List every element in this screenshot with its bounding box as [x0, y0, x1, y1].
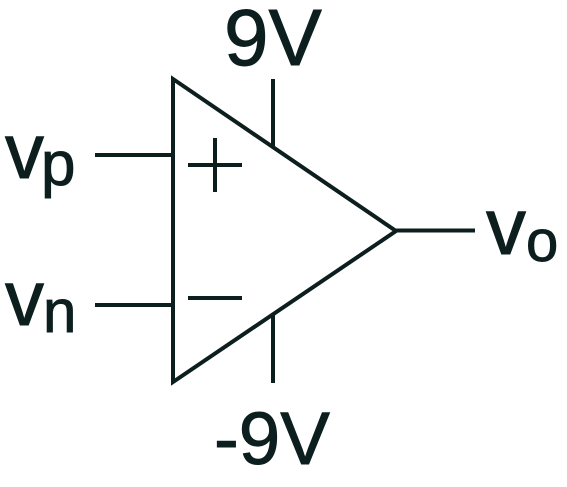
plus (non-inverting) input symbol — [188, 138, 242, 192]
minus (inverting) input symbol — [188, 296, 242, 300]
node vn label — [5, 254, 76, 345]
svg-text:n: n — [43, 278, 76, 345]
op-amp U1 triangle body — [173, 79, 396, 382]
wire +9V supply — [271, 79, 275, 147]
svg-text:9V: 9V — [224, 0, 322, 82]
svg-text:o: o — [526, 209, 558, 274]
node vp label — [5, 107, 75, 199]
label 9V positive supply — [224, 0, 322, 82]
wire vn input — [95, 303, 173, 307]
svg-text:v: v — [486, 182, 526, 271]
wire -9V supply — [271, 314, 275, 383]
wire output — [396, 229, 475, 233]
label -9V negative supply — [214, 397, 330, 480]
svg-text:p: p — [41, 130, 75, 199]
node vo label — [486, 182, 558, 274]
svg-text:v: v — [5, 107, 44, 195]
wire vp input — [95, 153, 173, 157]
svg-text:-9V: -9V — [214, 397, 330, 480]
svg-text:v: v — [5, 254, 44, 342]
